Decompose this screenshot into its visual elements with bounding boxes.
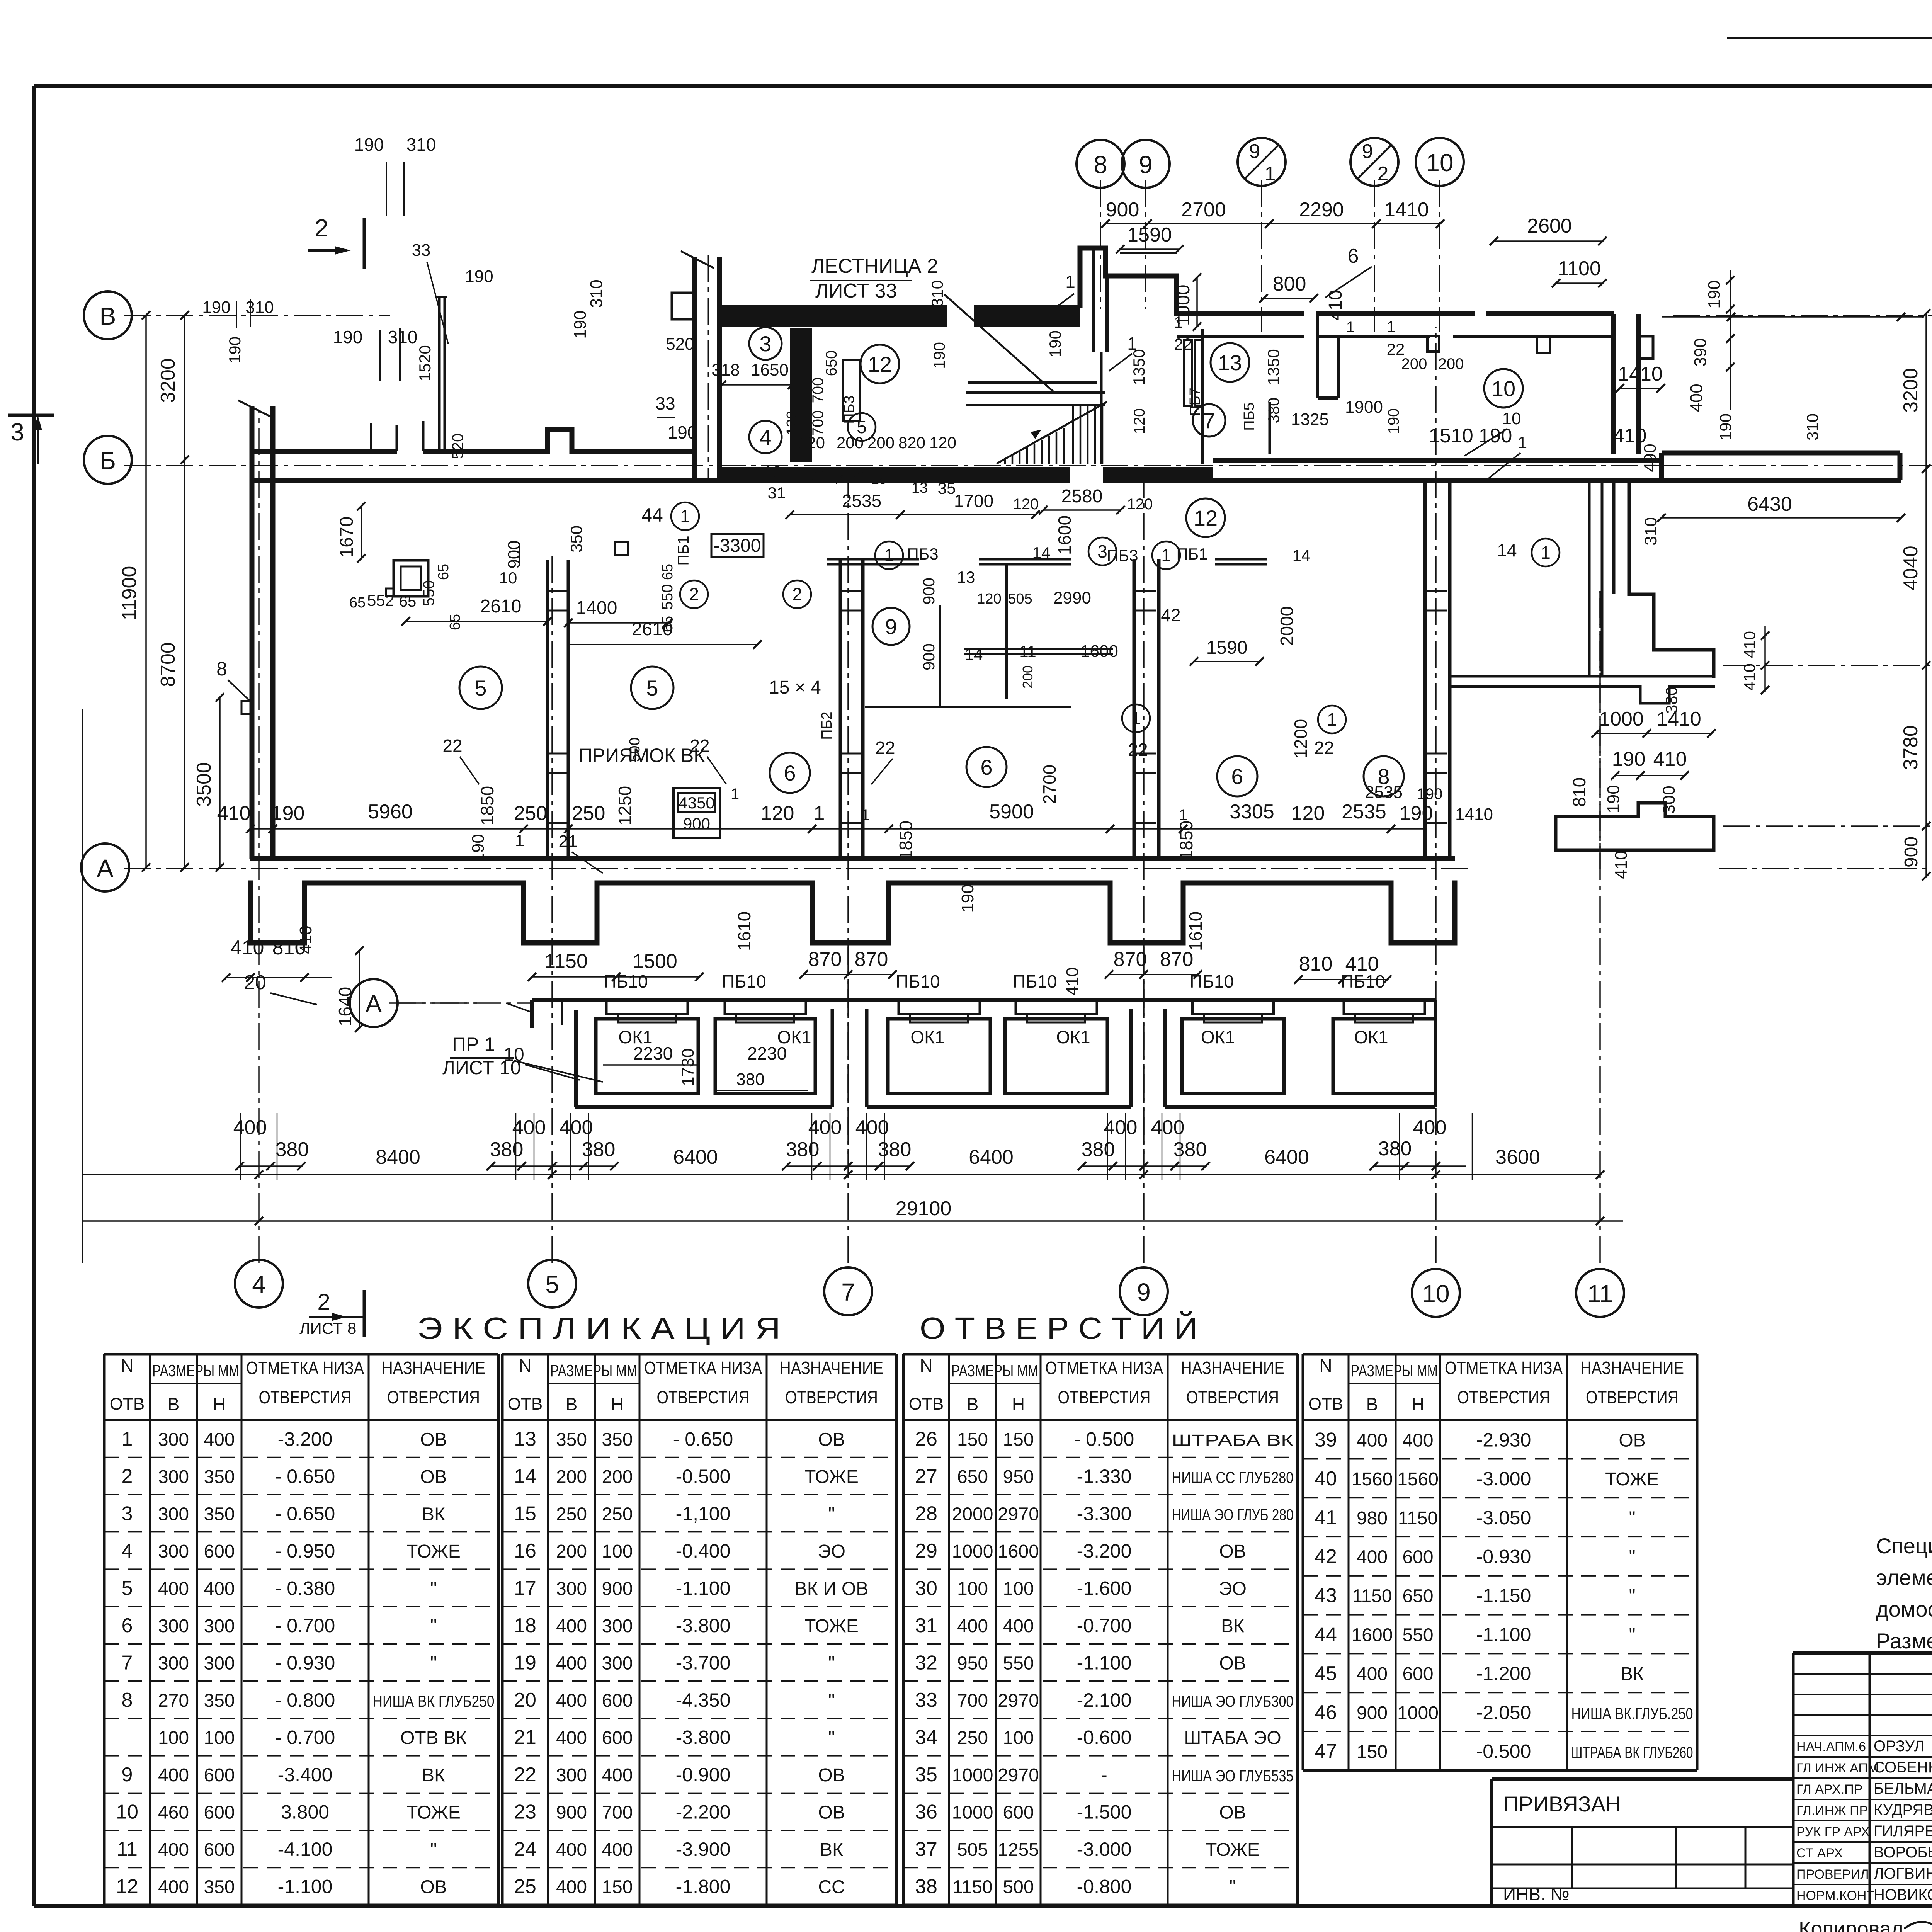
dim left 8700 [157, 456, 189, 872]
svg-text:380: 380 [1662, 687, 1680, 714]
svg-text:400: 400 [1357, 1664, 1388, 1684]
square detail kolonna [386, 560, 428, 596]
svg-text:400: 400 [158, 1578, 189, 1599]
wall left exterior [238, 400, 273, 859]
svg-text:400: 400 [158, 1877, 189, 1898]
room9 dims [920, 568, 1118, 689]
svg-text:2: 2 [1378, 163, 1389, 185]
svg-text:10: 10 [1492, 376, 1515, 401]
wall B-band bump [548, 430, 572, 451]
svg-text:- 0.650: - 0.650 [275, 1503, 335, 1524]
svg-text:10: 10 [503, 1044, 524, 1065]
svg-text:410: 410 [296, 925, 315, 954]
svg-text:1700: 1700 [954, 491, 993, 511]
svg-text:8: 8 [216, 658, 227, 680]
svg-text:410: 410 [1063, 967, 1082, 995]
svg-text:190: 190 [571, 310, 590, 338]
svg-text:380: 380 [276, 1138, 309, 1161]
svg-text:13: 13 [957, 568, 975, 586]
svg-text:600: 600 [602, 1690, 633, 1711]
svg-text:-2.100: -2.100 [1077, 1689, 1132, 1711]
svg-text:2580: 2580 [1061, 486, 1103, 507]
svg-text:120: 120 [1127, 496, 1153, 513]
svg-text:4: 4 [252, 1270, 266, 1298]
svg-text:4040: 4040 [1900, 546, 1922, 590]
svg-text:36: 36 [915, 1801, 937, 1823]
svg-text:11: 11 [1587, 1280, 1613, 1308]
svg-text:950: 950 [957, 1653, 988, 1674]
svg-text:ИНВ. №: ИНВ. № [1503, 1884, 1570, 1904]
svg-text:1670: 1670 [337, 517, 357, 558]
axis line 11 through pier [1599, 591, 1601, 869]
svg-text:34: 34 [915, 1726, 937, 1749]
svg-text:400: 400 [556, 1616, 587, 1636]
axis line A lower stub [389, 1002, 532, 1004]
svg-text:ОТВЕРСТИЯ: ОТВЕРСТИЯ [1458, 1387, 1550, 1407]
axis line A/1 stub [1723, 825, 1932, 827]
svg-text:19: 19 [764, 463, 782, 481]
labels 22 pilasters [442, 736, 1334, 784]
dim 190 410 lower [1604, 748, 1689, 879]
svg-text:-1.500: -1.500 [1077, 1801, 1132, 1823]
svg-text:1: 1 [731, 786, 739, 803]
section mark 2 bottom [299, 1289, 364, 1337]
svg-text:1400: 1400 [576, 598, 617, 618]
svg-text:190: 190 [1417, 786, 1443, 803]
svg-text:650: 650 [823, 350, 840, 376]
svg-text:9: 9 [1139, 151, 1153, 179]
svg-text:ОТВ: ОТВ [909, 1395, 944, 1413]
svg-text:1: 1 [884, 545, 894, 565]
table: holes 1-12 [104, 1354, 498, 1905]
svg-text:310: 310 [1803, 413, 1821, 440]
svg-text:-3.900: -3.900 [676, 1838, 731, 1860]
dim row 400 380 mid [490, 1116, 1207, 1161]
svg-text:1730: 1730 [679, 1048, 697, 1086]
stair dim cluster1 [798, 434, 956, 452]
svg-text:-3.400: -3.400 [278, 1764, 333, 1786]
svg-text:400: 400 [556, 1840, 587, 1860]
svg-text:24: 24 [514, 1838, 536, 1861]
svg-text:-0.700: -0.700 [1077, 1615, 1132, 1636]
svg-text:ЛОГВИНОВ: ЛОГВИНОВ [1874, 1865, 1932, 1882]
svg-text:6: 6 [1231, 764, 1243, 789]
svg-text:44: 44 [641, 504, 663, 526]
table: holes 26-38 [903, 1354, 1298, 1905]
dim 1410 right [1616, 363, 1665, 393]
svg-text:27: 27 [915, 1465, 937, 1488]
svg-text:37: 37 [915, 1838, 937, 1861]
svg-text:НАЗНАЧЕНИЕ: НАЗНАЧЕНИЕ [382, 1358, 485, 1378]
svg-text:РАЗМЕРЫ ММ: РАЗМЕРЫ ММ [1351, 1361, 1438, 1380]
svg-text:ОК1: ОК1 [910, 1027, 944, 1047]
wall top right pilaster a [1427, 336, 1439, 352]
svg-text:-3.800: -3.800 [676, 1727, 731, 1748]
svg-text:В: В [566, 1394, 578, 1414]
svg-text:1650: 1650 [751, 361, 789, 379]
svg-text:400: 400 [1413, 1116, 1447, 1139]
sheet outer thin border top [1727, 37, 1932, 39]
dim left 3500 [193, 693, 224, 872]
svg-text:900: 900 [920, 578, 938, 605]
dim rot 1850 c [896, 821, 916, 860]
section mark 3 left [8, 415, 54, 464]
svg-text:250: 250 [514, 802, 548, 825]
svg-text:190: 190 [1385, 408, 1402, 434]
partition room9 inner [865, 564, 1071, 707]
svg-text:300: 300 [556, 1765, 587, 1786]
axis line mid window band 7 [847, 947, 849, 1159]
axis line A horizontal [124, 868, 1932, 869]
svg-text:В: В [168, 1394, 180, 1414]
dim 1100 [1552, 257, 1607, 287]
svg-text:3305: 3305 [1230, 801, 1274, 823]
svg-text:ПБ3: ПБ3 [841, 395, 857, 423]
svg-text:380: 380 [490, 1138, 524, 1161]
svg-text:Н: Н [1012, 1394, 1025, 1414]
dim rot 1200 [1291, 719, 1311, 759]
svg-text:-4.350: -4.350 [676, 1689, 731, 1711]
svg-text:120: 120 [784, 411, 800, 435]
svg-text:505: 505 [957, 1840, 988, 1860]
svg-text:1150: 1150 [1352, 1586, 1392, 1607]
axis lines vertical bottom [259, 327, 1600, 1263]
svg-text:14: 14 [1497, 540, 1517, 560]
svg-text:47: 47 [1315, 1740, 1337, 1763]
svg-text:42: 42 [1315, 1546, 1337, 1568]
svg-text:410: 410 [1740, 663, 1759, 690]
dim rot 1850 a [477, 786, 497, 825]
svg-text:ПБ2: ПБ2 [819, 711, 835, 740]
svg-text:13: 13 [1218, 350, 1242, 375]
svg-text:310: 310 [388, 327, 418, 347]
svg-text:300: 300 [602, 1616, 633, 1636]
svg-text:5960: 5960 [368, 801, 413, 823]
svg-text:6: 6 [1348, 245, 1359, 267]
axis line B2 horizontal [124, 465, 1932, 466]
svg-text:ПРОВЕРИЛ: ПРОВЕРИЛ [1796, 1867, 1869, 1882]
svg-text:3.800: 3.800 [281, 1801, 329, 1823]
svg-text:ПРИВЯЗАН: ПРИВЯЗАН [1503, 1792, 1621, 1816]
dim rot 1640 [335, 946, 364, 1032]
svg-text:2535: 2535 [1365, 783, 1403, 802]
dim rot 410 b [1063, 967, 1082, 995]
svg-text:65: 65 [447, 614, 463, 630]
svg-text:410: 410 [1612, 850, 1631, 879]
svg-text:НИША ЭО ГЛУБ 280: НИША ЭО ГЛУБ 280 [1172, 1505, 1294, 1524]
svg-text:": " [1629, 1508, 1635, 1529]
svg-text:ОК1: ОК1 [1354, 1027, 1388, 1047]
svg-text:380: 380 [1265, 398, 1282, 423]
svg-text:600: 600 [1402, 1664, 1433, 1684]
svg-text:6: 6 [784, 761, 796, 785]
wall A2 band [1450, 676, 1714, 703]
svg-text:400: 400 [602, 1840, 633, 1860]
dim 800 [1259, 273, 1318, 303]
svg-text:2535: 2535 [1342, 801, 1386, 823]
svg-text:2990: 2990 [1053, 588, 1091, 607]
wall stair block left bump [672, 293, 694, 319]
svg-text:350: 350 [204, 1467, 235, 1487]
svg-text:800: 800 [1273, 273, 1306, 295]
svg-text:390: 390 [1691, 338, 1710, 366]
svg-text:870: 870 [1114, 948, 1147, 971]
svg-text:26: 26 [915, 1428, 937, 1450]
svg-text:600: 600 [204, 1541, 235, 1562]
svg-text:21: 21 [514, 1726, 536, 1749]
svg-text:900: 900 [920, 643, 938, 670]
wall interior B [840, 559, 863, 859]
svg-text:65: 65 [399, 593, 417, 610]
svg-text:ОТВЕРСТИЯ: ОТВЕРСТИЯ [1058, 1387, 1151, 1407]
svg-text:ОТМЕТКА НИЗА: ОТМЕТКА НИЗА [246, 1358, 364, 1378]
label lestnitsa [810, 255, 938, 302]
svg-text:1000: 1000 [952, 1541, 993, 1562]
svg-text:-2.930: -2.930 [1476, 1429, 1531, 1451]
svg-text:2000: 2000 [952, 1504, 993, 1524]
wall A-band top line [250, 856, 1455, 861]
svg-text:НОРМ.КОНТ: НОРМ.КОНТ [1796, 1888, 1874, 1903]
svg-text:150: 150 [1003, 1429, 1034, 1450]
svg-text:-3300: -3300 [714, 536, 761, 556]
label PR1 [442, 1034, 603, 1082]
svg-text:190: 190 [333, 327, 363, 347]
svg-text:ОТВ ВК: ОТВ ВК [400, 1728, 467, 1748]
axis circles slashed [1238, 138, 1932, 850]
svg-text:ОТВ: ОТВ [508, 1395, 543, 1413]
dim top row [1101, 219, 1444, 228]
svg-text:": " [1229, 1877, 1236, 1898]
room number circles [459, 327, 1523, 796]
window lintels PB10 [607, 1000, 1425, 1047]
svg-text:100: 100 [204, 1728, 235, 1748]
svg-text:ОРЗУЛ: ОРЗУЛ [1874, 1738, 1924, 1755]
svg-text:1: 1 [1127, 333, 1137, 354]
svg-text:30: 30 [915, 1577, 937, 1599]
svg-text:350: 350 [204, 1504, 235, 1524]
svg-text:": " [430, 1616, 437, 1636]
svg-text:РАЗМЕРЫ ММ: РАЗМЕРЫ ММ [152, 1361, 239, 1380]
svg-text:400: 400 [855, 1116, 889, 1139]
svg-text:ОТВЕРСТИЯ: ОТВЕРСТИЯ [387, 1387, 480, 1407]
svg-text:1: 1 [515, 831, 524, 850]
bottom right cluster [1365, 783, 1493, 824]
dim 2600 [1490, 215, 1607, 245]
svg-text:190: 190 [354, 134, 384, 155]
svg-text:1600: 1600 [998, 1541, 1039, 1562]
axis line mid window band 9 [1143, 947, 1145, 1159]
svg-text:380: 380 [1082, 1138, 1115, 1161]
svg-text:190: 190 [469, 834, 488, 862]
svg-text:17: 17 [514, 1577, 536, 1599]
svg-text:46: 46 [1315, 1701, 1337, 1724]
svg-text:400: 400 [808, 1116, 842, 1139]
svg-text:4: 4 [122, 1540, 133, 1562]
svg-text:-1.200: -1.200 [1476, 1663, 1531, 1684]
svg-text:": " [430, 1840, 437, 1860]
svg-text:200: 200 [867, 434, 895, 452]
svg-text:1: 1 [814, 802, 825, 825]
svg-text:350: 350 [567, 526, 585, 553]
svg-text:12: 12 [1194, 506, 1218, 530]
svg-text:1350: 1350 [1264, 349, 1282, 385]
svg-text:В: В [100, 302, 116, 330]
svg-text:550: 550 [1003, 1653, 1034, 1674]
title block: privyazan box [1492, 1779, 1793, 1906]
svg-text:100: 100 [1003, 1728, 1034, 1748]
svg-text:2: 2 [689, 584, 699, 604]
svg-text:1: 1 [861, 806, 870, 823]
svg-text:8: 8 [1094, 151, 1107, 179]
svg-text:700: 700 [810, 410, 827, 436]
svg-text:НИША СС ГЛУБ280: НИША СС ГЛУБ280 [1172, 1468, 1294, 1486]
svg-text:5: 5 [646, 676, 658, 700]
dim left 3200 [157, 311, 189, 464]
svg-text:410: 410 [231, 937, 264, 959]
svg-text:3: 3 [10, 418, 24, 446]
svg-text:14: 14 [514, 1465, 536, 1488]
svg-text:200: 200 [556, 1467, 587, 1487]
upper-left labels2 [202, 241, 493, 381]
wall top right pilaster b [1537, 336, 1550, 353]
svg-text:300: 300 [158, 1429, 189, 1450]
dim row bays [82, 1146, 1604, 1179]
svg-text:520: 520 [449, 434, 466, 459]
svg-text:1: 1 [1131, 708, 1141, 728]
stair dim cluster2 [764, 463, 1040, 519]
svg-text:65: 65 [660, 616, 676, 632]
svg-text:3780: 3780 [1900, 725, 1922, 770]
wall B-band right bar [1662, 453, 1900, 480]
svg-text:100: 100 [158, 1728, 189, 1748]
svg-text:900: 900 [505, 540, 524, 568]
dim 1510 190 410 [1429, 425, 1660, 546]
svg-text:- 0.700: - 0.700 [275, 1727, 335, 1748]
axis line B horizontal [124, 315, 1932, 316]
svg-text:ОТВЕРСТИЯ: ОТВЕРСТИЯ [657, 1387, 750, 1407]
svg-text:1350: 1350 [1130, 349, 1148, 385]
small square mark [615, 542, 628, 555]
svg-text:300: 300 [158, 1616, 189, 1636]
svg-text:250: 250 [957, 1728, 988, 1748]
svg-text:1000: 1000 [952, 1803, 993, 1823]
svg-text:10: 10 [1426, 149, 1453, 177]
svg-text:РУК ГР АРХ: РУК ГР АРХ [1796, 1825, 1870, 1839]
svg-text:200: 200 [837, 434, 864, 452]
svg-text:9: 9 [122, 1764, 133, 1786]
svg-text:900: 900 [556, 1803, 587, 1823]
svg-text:1520: 1520 [416, 345, 434, 381]
svg-text:-3.200: -3.200 [278, 1428, 333, 1450]
svg-text:100: 100 [1003, 1578, 1034, 1599]
svg-text:380: 380 [736, 1070, 764, 1089]
svg-text:22: 22 [514, 1764, 536, 1786]
svg-text:-4.100: -4.100 [278, 1838, 333, 1860]
label level -3300 [711, 534, 764, 557]
wall A-band left pier close [248, 883, 253, 943]
svg-text:НИША ЭО ГЛУБ300: НИША ЭО ГЛУБ300 [1172, 1692, 1294, 1710]
window boxes OK1 [596, 1019, 1435, 1094]
svg-text:О Т В Е Р С Т И Й: О Т В Е Р С Т И Й [920, 1311, 1198, 1345]
svg-text:600: 600 [204, 1765, 235, 1786]
note paragraph [1876, 1534, 1932, 1653]
svg-text:120: 120 [1291, 802, 1325, 825]
svg-text:1500: 1500 [633, 950, 677, 973]
svg-text:410: 410 [1653, 748, 1687, 770]
svg-text:300: 300 [1660, 786, 1679, 814]
svg-text:410: 410 [217, 802, 251, 825]
svg-text:9: 9 [885, 614, 897, 639]
wall right zigzag [1589, 480, 1714, 676]
stair landing wall [968, 381, 1097, 384]
svg-text:3: 3 [759, 332, 771, 356]
svg-text:-1.100: -1.100 [1476, 1624, 1531, 1645]
svg-text:-: - [1101, 1764, 1107, 1786]
dim 410 rot top [1325, 290, 1346, 321]
svg-text:650: 650 [1402, 1586, 1433, 1607]
svg-text:элементов заполнения проемов: элементов заполнения проемов, ведомость … [1876, 1565, 1932, 1590]
dim top texts [1106, 199, 1429, 221]
svg-text:1255: 1255 [998, 1840, 1039, 1860]
svg-text:190: 190 [668, 422, 697, 442]
svg-text:400: 400 [512, 1116, 546, 1139]
svg-text:": " [828, 1690, 835, 1711]
svg-text:1900: 1900 [1345, 398, 1383, 417]
svg-text:N: N [121, 1355, 133, 1376]
A circle lower [350, 979, 532, 1027]
dim left 11900 [118, 311, 150, 872]
svg-text:600: 600 [602, 1728, 633, 1748]
svg-text:42: 42 [1161, 605, 1180, 625]
svg-text:ОТВЕРСТИЯ: ОТВЕРСТИЯ [1586, 1387, 1679, 1407]
svg-text:600: 600 [1003, 1803, 1034, 1823]
svg-text:13: 13 [912, 480, 928, 496]
svg-text:1410: 1410 [1384, 199, 1429, 221]
svg-text:400: 400 [233, 1116, 267, 1139]
svg-text:410: 410 [1740, 631, 1759, 658]
label 1600 rot [1054, 515, 1075, 555]
svg-text:Размер оснований под пил: Размер оснований под пилоны дан по перво… [1876, 1629, 1932, 1653]
label 20 leader [244, 971, 317, 1005]
svg-text:-3.050: -3.050 [1476, 1507, 1531, 1529]
svg-text:460: 460 [158, 1803, 189, 1823]
svg-text:22: 22 [1314, 738, 1334, 758]
svg-text:150: 150 [602, 1877, 633, 1898]
svg-text:9: 9 [1137, 1278, 1151, 1306]
svg-text:ТОЖЕ: ТОЖЕ [406, 1803, 461, 1823]
svg-text:318: 318 [711, 361, 740, 379]
b-band right dim [1716, 413, 1821, 440]
svg-text:190: 190 [271, 802, 305, 825]
wall porch recess [1080, 248, 1177, 464]
svg-text:-1.800: -1.800 [676, 1876, 731, 1898]
svg-text:41: 41 [1315, 1507, 1337, 1529]
svg-text:900: 900 [1901, 837, 1922, 867]
dim rot 1850 b [1176, 821, 1196, 860]
svg-text:ОВ: ОВ [818, 1765, 845, 1786]
svg-text:1: 1 [1346, 319, 1355, 336]
svg-text:410: 410 [1325, 290, 1346, 321]
svg-text:ПБ1: ПБ1 [675, 536, 692, 565]
svg-text:6: 6 [122, 1614, 133, 1637]
svg-text:А: А [366, 990, 382, 1018]
svg-text:550: 550 [420, 580, 437, 606]
svg-text:1610: 1610 [1185, 912, 1206, 951]
svg-text:300: 300 [556, 1578, 587, 1599]
svg-text:3500: 3500 [193, 762, 215, 807]
svg-text:1000: 1000 [952, 1765, 993, 1786]
svg-text:1: 1 [1386, 318, 1395, 336]
